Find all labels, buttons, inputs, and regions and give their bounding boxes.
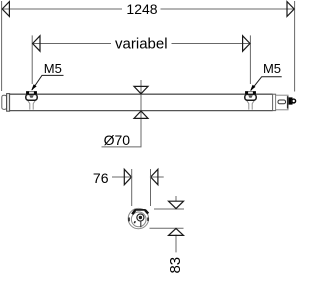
svg-text:76: 76: [93, 170, 109, 186]
svg-text:1248: 1248: [126, 1, 157, 17]
svg-text:Ø70: Ø70: [104, 132, 131, 148]
svg-text:83: 83: [167, 257, 184, 274]
svg-text:variabel: variabel: [115, 35, 168, 52]
svg-text:M5: M5: [263, 61, 281, 76]
svg-text:M5: M5: [44, 61, 62, 76]
